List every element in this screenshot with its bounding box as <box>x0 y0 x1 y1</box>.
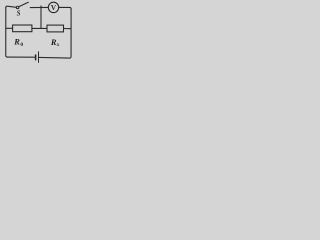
label V <box>51 3 57 12</box>
wire bottom-left (corner to battery) <box>7 56 34 58</box>
wire middle-left (left wire to R0) <box>6 27 13 29</box>
switch S <box>16 2 28 8</box>
wire voltmeter to top-right corner <box>59 7 71 9</box>
label R0 <box>13 38 23 48</box>
label S <box>17 10 21 17</box>
wire bottom-right (battery to corner) <box>39 56 69 59</box>
svg-text:x: x <box>56 42 60 48</box>
left wire <box>6 7 8 57</box>
wire center node to Rx <box>41 27 47 29</box>
wire top-left (corner to switch) <box>6 6 16 7</box>
wire Rx to right wire <box>64 28 72 30</box>
svg-text:R: R <box>13 38 20 47</box>
svg-text:V: V <box>51 3 57 12</box>
svg-text:0: 0 <box>20 42 23 48</box>
resistor Rx <box>47 25 64 32</box>
wire R0 to center node <box>32 27 41 29</box>
battery BT1 positive plate (long) <box>38 52 40 63</box>
wire switch to voltmeter <box>30 6 48 8</box>
right wire <box>70 9 72 58</box>
battery BT1 negative plate (short) <box>35 55 37 60</box>
voltmeter U1 V <box>48 2 58 12</box>
resistor R0 <box>13 25 32 32</box>
wire vertical link (node between S and V down to node between R0 and Rx) <box>40 6 42 29</box>
svg-text:S: S <box>17 10 21 17</box>
label Rx <box>50 38 60 48</box>
paper background <box>0 0 75 63</box>
